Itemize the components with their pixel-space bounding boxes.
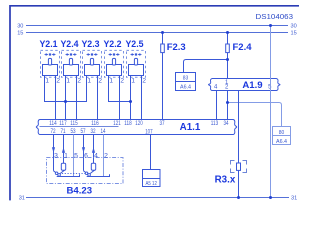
svg-text:A6.4: A6.4 — [180, 85, 191, 91]
component box A5 — [143, 170, 161, 187]
svg-text:107: 107 — [145, 129, 153, 135]
svg-text:30: 30 — [17, 24, 23, 30]
svg-text:2: 2 — [120, 77, 124, 84]
wire junction branch to box 80/A6.4 — [228, 103, 282, 127]
svg-text:1: 1 — [109, 77, 113, 84]
wire F2.4 branch to box 83/A6.4 — [184, 60, 228, 73]
fuse F2.4 — [227, 33, 229, 79]
svg-text:A6.4: A6.4 — [276, 139, 287, 145]
wire bus B (pins 1 of Y2.2,Y2.5) — [109, 76, 131, 102]
svg-text:5: 5 — [74, 152, 78, 159]
svg-text:6: 6 — [84, 152, 88, 159]
svg-text:F2.3: F2.3 — [167, 42, 186, 53]
wire valve pin2 columns to A1.1 — [55, 76, 57, 120]
connector band A1.1 — [36, 120, 236, 136]
svg-text:32: 32 — [90, 129, 96, 135]
svg-text:R3.x: R3.x — [215, 175, 236, 186]
wire A1.1 pin107 to A5 — [150, 135, 152, 170]
svg-text:80: 80 — [279, 130, 285, 136]
wire A1.9 pin2 to A1.1 pin34 — [227, 91, 229, 120]
wires A1.1 to B4.23 — [53, 135, 55, 158]
svg-text:2: 2 — [77, 77, 81, 84]
svg-text:1: 1 — [131, 77, 135, 84]
wire A1.9 to rail 31 through R3.x — [238, 91, 240, 198]
svg-text:F2.4: F2.4 — [233, 42, 253, 53]
sensor element right — [93, 158, 95, 164]
solenoid valve Y2.1 — [39, 39, 60, 84]
svg-text:2: 2 — [142, 77, 146, 84]
svg-text:37: 37 — [159, 121, 165, 127]
solenoid valve Y2.2 — [103, 39, 124, 84]
svg-text:83: 83 — [183, 76, 189, 82]
solenoid valve Y2.3 — [81, 39, 102, 84]
svg-text:Y2.3: Y2.3 — [81, 39, 99, 49]
svg-text:1: 1 — [64, 152, 68, 159]
svg-text:72: 72 — [50, 129, 56, 135]
reference box 83/A6.4 — [176, 73, 196, 91]
resistor R3.x — [215, 161, 247, 186]
mechanical link — [62, 172, 88, 174]
svg-text:113: 113 — [211, 121, 219, 127]
svg-text:116: 116 — [91, 121, 99, 127]
svg-text:1: 1 — [66, 77, 70, 84]
net 15 rail — [26, 32, 288, 34]
svg-text:71: 71 — [60, 129, 66, 135]
fuse F2.3 — [162, 33, 164, 120]
node bus B junction — [129, 100, 132, 103]
svg-text:Y2.1: Y2.1 — [39, 39, 57, 49]
svg-text:118: 118 — [124, 121, 132, 127]
svg-text:2: 2 — [104, 152, 108, 159]
svg-text:34: 34 — [223, 121, 229, 127]
svg-text:15: 15 — [17, 31, 23, 37]
svg-text:115: 115 — [70, 121, 78, 127]
svg-text:14: 14 — [100, 129, 106, 135]
svg-text:1: 1 — [87, 77, 91, 84]
svg-text:Y2.5: Y2.5 — [125, 39, 143, 49]
solenoid valve Y2.5 — [125, 39, 146, 84]
svg-text:30: 30 — [291, 24, 297, 30]
wire pale column rail 30 to rail 31 — [270, 26, 272, 198]
svg-text:Y2.2: Y2.2 — [103, 39, 121, 49]
svg-text:15: 15 — [291, 31, 297, 37]
svg-text:53: 53 — [70, 129, 76, 135]
svg-text:3: 3 — [54, 152, 58, 159]
svg-text:31: 31 — [19, 196, 25, 202]
reference box 80/A6.4 — [273, 127, 291, 145]
net 30 rail — [26, 25, 288, 27]
wire A1.9 pin4 to A1.1 pin113 — [216, 91, 218, 120]
sensor B4.23 — [47, 152, 124, 196]
svg-text:A1.9: A1.9 — [242, 80, 262, 91]
svg-text:1: 1 — [45, 77, 49, 84]
net 31 rail — [26, 197, 289, 199]
solenoid valve Y2.4 — [60, 39, 81, 84]
svg-text:Y2.4: Y2.4 — [60, 39, 78, 49]
connector band A1.9 — [209, 79, 281, 92]
svg-text:DS104063: DS104063 — [256, 14, 294, 21]
svg-text:31: 31 — [291, 196, 297, 202]
svg-text:121: 121 — [113, 121, 121, 127]
svg-text:A5 12: A5 12 — [145, 181, 157, 187]
svg-text:2: 2 — [56, 77, 60, 84]
wire bus A (pins 1 of Y2.1,Y2.4,Y2.3) — [45, 76, 87, 102]
sensor element left — [63, 158, 65, 164]
svg-text:A1.1: A1.1 — [180, 122, 201, 133]
svg-text:117: 117 — [59, 121, 67, 127]
node bus A junction — [64, 100, 67, 103]
svg-text:120: 120 — [135, 121, 143, 127]
svg-text:114: 114 — [49, 121, 57, 127]
frame border — [10, 6, 299, 201]
svg-text:B4.23: B4.23 — [66, 185, 92, 196]
svg-text:57: 57 — [80, 129, 86, 135]
svg-text:4: 4 — [94, 152, 98, 159]
svg-text:2: 2 — [98, 77, 102, 84]
